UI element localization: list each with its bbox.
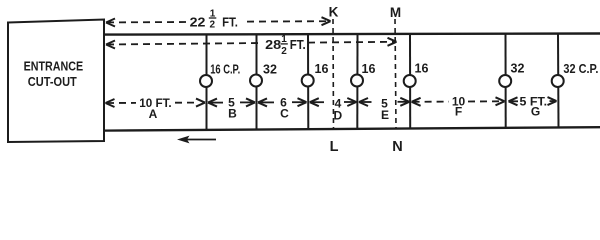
svg-text:D: D: [333, 108, 342, 122]
dimension segment A 10 FT.: [106, 99, 206, 107]
svg-text:16: 16: [315, 62, 329, 76]
dimension 28 1/2 FT.: [106, 38, 397, 49]
lamp L5 circle: [404, 75, 416, 87]
lamp drop 5 wire: [409, 34, 411, 129]
svg-text:K: K: [329, 4, 339, 19]
svg-text:M: M: [390, 5, 401, 20]
svg-text:F: F: [455, 105, 462, 119]
direction arrow under bottom bus: [186, 139, 216, 141]
svg-text:A: A: [149, 107, 158, 121]
lamp drop 4 wire: [356, 34, 358, 129]
dimension segment F 10: [412, 97, 505, 106]
entrance cut-out box: [8, 20, 104, 143]
dimension segment B 5: [208, 98, 255, 106]
lamp drop 1 wire: [206, 35, 208, 131]
dimension 22 1/2 FT.: [106, 17, 331, 26]
wire: bottom bus: [103, 127, 600, 130]
dimension segment C 6: [258, 98, 307, 106]
svg-text:G: G: [531, 105, 540, 119]
svg-text:2: 2: [281, 46, 287, 57]
svg-text:2: 2: [210, 20, 216, 31]
svg-text:FT.: FT.: [290, 37, 306, 52]
svg-text:E: E: [381, 108, 389, 122]
svg-text:28: 28: [265, 37, 281, 52]
svg-text:32 C.P.: 32 C.P.: [563, 61, 598, 76]
node M dashed line M-N: [395, 19, 396, 128]
dimension segment D 4: [310, 98, 357, 106]
node K dashed line K-L: [332, 19, 335, 129]
lamp L7 circle: [552, 75, 564, 87]
lamp L6 circle: [499, 75, 511, 87]
svg-text:32: 32: [263, 63, 277, 77]
lamp drop 3 wire: [307, 34, 309, 129]
svg-text:B: B: [228, 107, 237, 121]
dimension segment G 5 FT.: [509, 97, 557, 105]
wire: top bus: [103, 34, 600, 35]
svg-text:22: 22: [190, 14, 206, 29]
svg-text:ENTRANCE: ENTRANCE: [24, 59, 84, 74]
lamp L4 circle: [351, 75, 363, 87]
svg-text:CUT-OUT: CUT-OUT: [28, 74, 77, 89]
lamp drop 2 wire: [256, 35, 258, 130]
lamp L1 circle: [200, 75, 212, 87]
lamp drop 7 wire: [557, 34, 560, 128]
svg-text:16: 16: [362, 62, 376, 76]
svg-text:16 C.P.: 16 C.P.: [210, 61, 240, 76]
svg-text:C: C: [280, 106, 289, 120]
svg-text:32: 32: [511, 62, 525, 76]
lamp drop 6 wire: [505, 34, 507, 128]
svg-text:FT.: FT.: [222, 14, 238, 29]
svg-text:16: 16: [415, 62, 429, 76]
dimension segment E 5: [359, 98, 409, 106]
lamp L3 circle: [302, 75, 314, 87]
svg-text:N: N: [392, 139, 402, 154]
svg-text:L: L: [330, 139, 339, 154]
lamp L2 circle: [250, 75, 262, 87]
